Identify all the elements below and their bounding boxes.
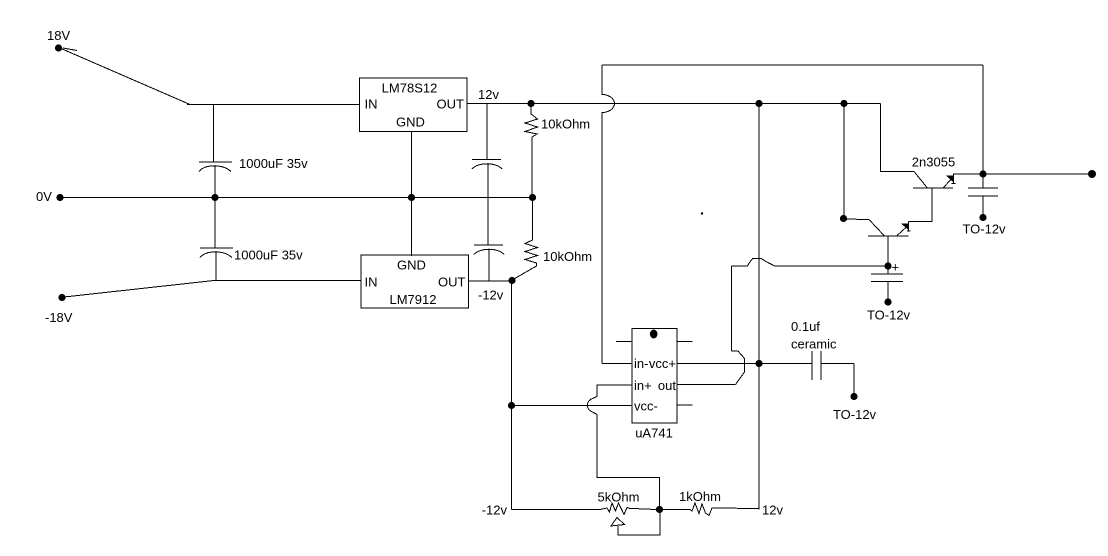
- wire feedback hop at vcc+ to out pin: [732, 351, 745, 385]
- wire vcc+ pin to 12v vertical: [677, 363, 812, 365]
- wire -12v bottom rail: [512, 509, 601, 511]
- junction emitter node: [884, 262, 891, 269]
- capacitor C3 upper regulator output: [472, 104, 502, 246]
- svg-text:vcc+: vcc+: [649, 356, 676, 371]
- wire U1 GND to 0V rail: [411, 132, 413, 257]
- svg-text:LM78S12: LM78S12: [382, 81, 438, 96]
- capacitor C4 lower regulator output: [474, 245, 504, 281]
- terminal C5 TO-12v: [884, 298, 891, 305]
- wire 2n3055 base from rail corner: [881, 104, 915, 172]
- svg-text:uA741: uA741: [635, 426, 673, 441]
- wire from -18V terminal diagonal: [64, 281, 214, 298]
- wire wiper to divider node: [618, 510, 660, 536]
- resistor R3 5kOhm: [600, 503, 656, 515]
- resistor R1 10kOhm upper: [525, 104, 538, 198]
- junction vcc- tap: [508, 402, 515, 409]
- svg-text:10kOhm: 10kOhm: [541, 117, 590, 132]
- transistor Q1 2n3055: [913, 172, 956, 189]
- junction driver base: [840, 215, 847, 222]
- wire feedback from emitter node with hop: [732, 259, 889, 266]
- wire sense line top (output to in-): [602, 64, 983, 66]
- svg-text:OUT: OUT: [438, 275, 466, 290]
- svg-text:1000uF 35v: 1000uF 35v: [234, 248, 303, 263]
- svg-text:5kOhm: 5kOhm: [598, 490, 640, 505]
- svg-text:out: out: [658, 378, 676, 393]
- terminal -18V input: [58, 294, 65, 301]
- svg-text:in-: in-: [634, 356, 648, 371]
- svg-text:1kOhm: 1kOhm: [679, 489, 721, 504]
- junction 0V / resistors: [529, 194, 536, 201]
- regulator U2 LM7912: [361, 255, 469, 308]
- junction vcc+: [755, 360, 762, 367]
- wire 0V rail: [60, 197, 533, 199]
- stray dot artifact: [701, 212, 703, 214]
- transistor Q2 driver: [844, 219, 911, 236]
- potentiometer wiper arrow: [611, 518, 625, 527]
- svg-text:TO-12v: TO-12v: [833, 407, 877, 422]
- svg-text:IN: IN: [365, 97, 378, 112]
- wire divider node to R4: [660, 509, 691, 511]
- svg-text:+: +: [892, 260, 900, 275]
- wire in- pin: [602, 363, 632, 365]
- capacitor C6 output: [968, 174, 998, 217]
- capacitor C5 emitter: [871, 266, 903, 302]
- svg-text:-12v: -12v: [478, 288, 504, 303]
- wire to LM78S12 IN: [187, 104, 360, 106]
- wire 12v branch vertical long: [758, 104, 760, 510]
- regulator U1 LM78S12: [360, 78, 468, 132]
- svg-text:IN: IN: [365, 275, 378, 290]
- svg-text:in+: in+: [634, 378, 652, 393]
- svg-text:GND: GND: [396, 115, 425, 130]
- wire from 18V terminal diagonal: [61, 48, 190, 105]
- svg-text:TO-12v: TO-12v: [867, 308, 911, 323]
- terminal C6 TO-12v: [979, 214, 986, 221]
- svg-text:OUT: OUT: [437, 97, 465, 112]
- wire sense vertical right: [982, 65, 984, 174]
- capacitor C1 1000uF 35v upper: [199, 105, 232, 198]
- wire -12v vertical to bottom rail: [511, 281, 513, 510]
- svg-text:10kOhm: 10kOhm: [543, 249, 592, 264]
- svg-text:0V: 0V: [36, 189, 52, 204]
- junction output / C6: [979, 170, 986, 177]
- terminal 0V: [56, 194, 63, 201]
- pin stub left top: [616, 341, 632, 343]
- wire sense vertical left with hop over 12v rail: [602, 65, 615, 364]
- wire U2 OUT -12v: [469, 280, 513, 282]
- junction 0V / C1,C2: [211, 194, 218, 201]
- wire to LM7912 IN: [214, 280, 361, 282]
- junction 12v rail / op-amp branch: [755, 100, 762, 107]
- svg-text:18V: 18V: [47, 28, 70, 43]
- pin stub right top: [677, 341, 693, 343]
- junction 12v/R1: [527, 100, 534, 107]
- junction divider node: [656, 506, 663, 513]
- svg-text:GND: GND: [397, 258, 426, 273]
- junction -12v node: [508, 277, 515, 284]
- svg-text:1000uF 35v: 1000uF 35v: [239, 156, 308, 171]
- wire Q2 emitter to Q1 base bar: [909, 188, 933, 222]
- svg-text:12v: 12v: [478, 87, 499, 102]
- wire output rail: [954, 173, 1093, 175]
- svg-text:-18V: -18V: [45, 310, 73, 325]
- op-amp U3 uA741: [632, 329, 677, 424]
- svg-text:2n3055: 2n3055: [912, 155, 955, 170]
- pin stub right bottom: [677, 404, 693, 406]
- capacitor C7 0.1uf ceramic: [812, 351, 854, 396]
- junction GND/0V: [408, 194, 415, 201]
- terminal C7 TO-12v: [850, 393, 857, 400]
- svg-text:ceramic: ceramic: [791, 337, 837, 352]
- terminal 18V input: [55, 44, 62, 51]
- wire driver base vertical: [843, 104, 845, 219]
- resistor R4 1kOhm: [690, 503, 759, 516]
- svg-text:12v: 12v: [762, 503, 783, 518]
- junction 12v rail / driver base branch: [840, 100, 847, 107]
- wire vcc- pin to -12v vertical: [512, 405, 633, 407]
- svg-text:TO-12v: TO-12v: [962, 222, 1006, 237]
- wire feedback vertical: [731, 266, 733, 351]
- svg-text:vcc-: vcc-: [634, 399, 658, 414]
- terminal output right: [1088, 170, 1096, 178]
- wire Q2 collector down: [887, 236, 889, 267]
- svg-text:LM7912: LM7912: [390, 292, 437, 307]
- resistor R2 10kOhm lower: [513, 198, 538, 280]
- wire in+ pin with hop over vcc-: [587, 385, 659, 510]
- svg-text:-12v: -12v: [482, 503, 508, 518]
- wire 12v rail from U1 OUT: [467, 103, 881, 105]
- svg-text:0.1uf: 0.1uf: [791, 319, 820, 334]
- capacitor C2 1000uF 35v lower: [200, 198, 233, 281]
- wire op-amp out pin: [677, 384, 736, 386]
